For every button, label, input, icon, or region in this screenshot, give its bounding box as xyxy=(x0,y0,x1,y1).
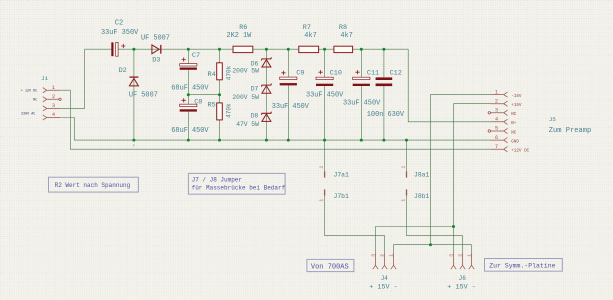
svg-text:33uF 350V: 33uF 350V xyxy=(101,29,139,37)
node mid C8 xyxy=(187,93,190,96)
note box R2 Wert nach Spannung xyxy=(49,177,139,192)
resistor R4 xyxy=(217,63,223,80)
pin J1.2 xyxy=(43,97,59,102)
note box Von 700AS xyxy=(307,259,354,271)
wire J8b to J6 pin2 xyxy=(407,196,463,253)
node gnd/D2 xyxy=(132,139,135,142)
node gnd/R5 xyxy=(218,139,221,142)
svg-text:1: 1 xyxy=(52,85,55,91)
svg-text:J6: J6 xyxy=(459,275,467,282)
note box J7/J8 Jumper xyxy=(188,173,285,194)
wire R7 to R8 xyxy=(319,48,334,50)
resistor R8 xyxy=(334,46,353,52)
diode D3 xyxy=(152,45,161,54)
wire zener column D6 D7 D8 xyxy=(265,49,267,140)
wire C10 column down to J7a xyxy=(324,49,326,171)
svg-text:+ 15V -: + 15V - xyxy=(369,283,398,291)
pin J6.2 xyxy=(460,253,465,269)
node bus/C10 xyxy=(323,48,326,51)
pin J1.4 xyxy=(43,115,60,120)
capacitor C2 xyxy=(111,42,125,56)
svg-text:+12V DC: +12V DC xyxy=(511,149,529,154)
svg-text:4: 4 xyxy=(52,112,55,118)
wire +15V to J4 pin3 xyxy=(376,227,454,253)
connector J5 xyxy=(488,92,507,152)
svg-text:J7b1: J7b1 xyxy=(334,193,350,200)
svg-text:C2: C2 xyxy=(115,19,123,27)
connector J4 xyxy=(373,253,396,269)
svg-text:7: 7 xyxy=(495,144,498,150)
svg-text:33uF 450V: 33uF 450V xyxy=(272,103,310,111)
svg-text:3: 3 xyxy=(52,103,55,109)
svg-text:200V 5W: 200V 5W xyxy=(232,68,259,75)
pin J5.6 xyxy=(491,138,508,143)
wire C9 column xyxy=(287,49,289,140)
capacitor C11 xyxy=(353,70,370,86)
svg-text:1: 1 xyxy=(388,254,394,257)
svg-text:R7: R7 xyxy=(303,24,311,32)
svg-text:C7: C7 xyxy=(192,52,200,60)
zener D6 xyxy=(261,57,271,67)
zener D7 xyxy=(261,84,271,94)
svg-text:C10: C10 xyxy=(330,70,342,78)
svg-text:5: 5 xyxy=(495,126,498,132)
pin J5.2 xyxy=(491,101,508,106)
svg-text:2: 2 xyxy=(495,98,498,104)
node gnd/D8 xyxy=(265,139,268,142)
svg-text:3: 3 xyxy=(495,108,498,114)
resistor R7 xyxy=(299,46,319,52)
svg-text:NC: NC xyxy=(33,99,37,103)
node bus/C12 xyxy=(382,48,385,51)
node bus/C11 xyxy=(360,48,363,51)
resistor R5 xyxy=(217,103,223,120)
node bus/R4 xyxy=(218,48,221,51)
pin J6.1 xyxy=(469,253,474,269)
svg-text:D6: D6 xyxy=(251,61,259,68)
svg-text:B+: B+ xyxy=(511,121,517,126)
note box Zur Symm.-Platine xyxy=(485,259,563,272)
wire top bus left of C2 xyxy=(85,48,112,50)
svg-text:D3: D3 xyxy=(152,56,160,64)
svg-text:68uF 450V: 68uF 450V xyxy=(171,85,209,93)
wire R6 to R7 xyxy=(253,48,299,50)
svg-text:2: 2 xyxy=(379,254,385,257)
svg-text:33uF 450V: 33uF 450V xyxy=(306,91,344,99)
node bus/C9 xyxy=(287,48,290,51)
svg-text:UF 5007: UF 5007 xyxy=(129,92,158,100)
svg-text:R6: R6 xyxy=(239,24,247,32)
node bus/D6 xyxy=(265,48,268,51)
pin J5.7 xyxy=(491,147,508,152)
wire ground rail to J8a xyxy=(406,140,408,171)
capacitor C9 xyxy=(280,71,297,86)
wire J1 pin4 ground rail to J5 pin6 xyxy=(60,118,490,141)
pin J4.2 xyxy=(382,253,387,269)
svg-text:1: 1 xyxy=(495,89,498,95)
svg-text:C8: C8 xyxy=(194,98,202,106)
svg-text:470k: 470k xyxy=(226,103,233,118)
svg-text:UF 5007: UF 5007 xyxy=(141,34,170,42)
pin J5.3 xyxy=(491,110,508,115)
svg-text:R5: R5 xyxy=(208,101,216,109)
svg-text:4k7: 4k7 xyxy=(304,32,316,40)
svg-text:200V 5W: 200V 5W xyxy=(232,94,259,101)
svg-text:B: B xyxy=(133,143,135,147)
svg-text:NC: NC xyxy=(511,130,517,135)
svg-text:1: 1 xyxy=(466,254,472,257)
jumper pin J8b1 xyxy=(400,189,429,201)
svg-text:R4: R4 xyxy=(208,71,216,79)
diode D2 xyxy=(129,77,138,86)
wire B+ vertical and to J5 pin4 xyxy=(408,49,490,122)
svg-text:J7a1: J7a1 xyxy=(334,171,350,178)
wire C12 column xyxy=(383,49,385,140)
wire J7b to J4 pin2 xyxy=(325,196,385,253)
svg-text:33uF 450V: 33uF 450V xyxy=(343,99,381,107)
node gnd/C11 xyxy=(360,139,363,142)
pin J5.4 xyxy=(491,119,508,124)
pin J5.1 xyxy=(491,92,508,97)
svg-text:J7 / J8 Jumper: J7 / J8 Jumper xyxy=(192,176,243,183)
svg-text:J8a1: J8a1 xyxy=(414,171,430,178)
capacitor C8 xyxy=(180,98,197,111)
connector J1 xyxy=(43,88,61,121)
wire -15V J4 pin1 to J6 pin1 xyxy=(394,245,472,253)
svg-text:2: 2 xyxy=(52,94,55,100)
svg-text:Von 700AS: Von 700AS xyxy=(311,263,349,271)
svg-text:3: 3 xyxy=(448,254,454,257)
svg-text:1: 1 xyxy=(400,199,406,202)
svg-text:R2 Wert nach Spannung: R2 Wert nach Spannung xyxy=(55,182,131,189)
wire C2 to D3 xyxy=(118,48,232,50)
zener D8 xyxy=(261,112,271,122)
svg-text:4k7: 4k7 xyxy=(340,32,352,40)
svg-text:-15V: -15V xyxy=(511,94,522,99)
capacitor C10 xyxy=(316,70,333,86)
svg-text:68uF 450V: 68uF 450V xyxy=(171,127,209,135)
svg-text:100n 630V: 100n 630V xyxy=(367,111,405,119)
wire J1 pin1 +12V rail to J5 pin7 xyxy=(60,90,490,149)
node gnd/J8 xyxy=(405,139,408,142)
resistor R6 xyxy=(233,46,253,52)
wire mid junction row xyxy=(188,94,219,96)
pin J4.1 xyxy=(391,253,396,269)
wire J5 pin1 -15V down xyxy=(431,95,491,245)
wire R4/R5 column xyxy=(219,49,221,140)
node mid R5 xyxy=(218,93,221,96)
node gnd/C9 xyxy=(287,139,290,142)
wire J5 pin2 +15V down to J6 pin3 xyxy=(454,104,491,253)
svg-text:D7: D7 xyxy=(251,85,259,92)
wire C7/C8 column xyxy=(187,49,189,140)
svg-text:J1: J1 xyxy=(41,75,48,82)
capacitor C7 xyxy=(180,57,197,69)
pin J1.1 xyxy=(43,88,60,93)
svg-text:1: 1 xyxy=(318,166,324,169)
jumper pin J7a1 xyxy=(318,166,349,179)
svg-text:Zur Symm.-Platine: Zur Symm.-Platine xyxy=(489,262,555,269)
node bus/C7 xyxy=(187,48,190,51)
connector J6 xyxy=(451,253,474,269)
wire R8 to B+ corner xyxy=(353,48,409,50)
svg-text:1: 1 xyxy=(318,199,324,202)
svg-text:1: 1 xyxy=(400,166,406,169)
node gnd/C12 xyxy=(382,139,385,142)
wire C11 column xyxy=(360,49,362,140)
wire D2 column xyxy=(133,49,135,140)
node gnd/C10 xyxy=(323,139,326,142)
jumper pin J8a1 xyxy=(400,166,429,179)
svg-text:Zum Preamp: Zum Preamp xyxy=(549,127,592,135)
svg-text:2K2 1W: 2K2 1W xyxy=(227,32,253,40)
svg-text:2: 2 xyxy=(457,254,463,257)
pin J5.5 xyxy=(491,128,508,133)
pin J1.3 xyxy=(43,106,60,111)
svg-text:GND: GND xyxy=(511,139,519,144)
svg-text:J4: J4 xyxy=(381,275,389,282)
pin J6.3 xyxy=(451,253,456,269)
svg-text:für Massebrücke bei Bedarf: für Massebrücke bei Bedarf xyxy=(192,184,286,191)
node bus/D2 xyxy=(132,48,135,51)
svg-text:3: 3 xyxy=(370,254,376,257)
svg-text:D8: D8 xyxy=(251,113,259,120)
node gnd/C8 xyxy=(187,139,190,142)
svg-text:C9: C9 xyxy=(296,70,304,78)
wire J1 pin3 to C2 xyxy=(60,49,84,108)
svg-text:230V AC: 230V AC xyxy=(21,113,35,117)
svg-text:D2: D2 xyxy=(119,67,127,75)
pin J4.3 xyxy=(373,253,378,269)
jumper pin J7b1 xyxy=(318,189,349,201)
svg-text:+ 12V DC: + 12V DC xyxy=(21,89,37,93)
svg-text:C12: C12 xyxy=(390,70,402,78)
svg-text:NC: NC xyxy=(511,112,517,117)
node +15V xyxy=(452,225,455,228)
svg-text:R8: R8 xyxy=(339,24,347,32)
svg-text:4: 4 xyxy=(495,117,498,123)
svg-text:J8b1: J8b1 xyxy=(414,193,430,200)
svg-text:47V 5W: 47V 5W xyxy=(236,121,259,128)
svg-text:6: 6 xyxy=(495,135,498,141)
capacitor C12 xyxy=(376,77,393,86)
svg-text:C11: C11 xyxy=(367,70,379,78)
svg-text:J5: J5 xyxy=(549,116,556,123)
node -15V xyxy=(429,243,432,246)
svg-text:+ 15V -: + 15V - xyxy=(447,283,476,291)
svg-text:+15V: +15V xyxy=(511,103,522,108)
